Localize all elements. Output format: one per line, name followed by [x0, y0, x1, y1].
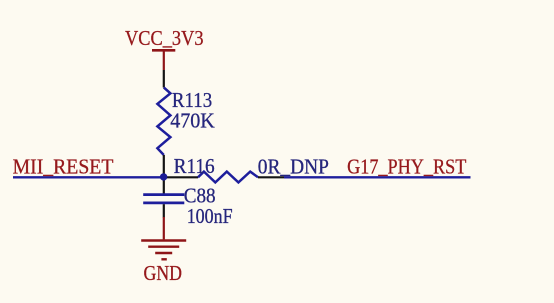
svg-text:G17_PHY_RST: G17_PHY_RST — [347, 154, 466, 178]
svg-text:470K: 470K — [170, 109, 215, 133]
svg-text:GND: GND — [144, 261, 183, 285]
svg-text:MII_RESET: MII_RESET — [13, 154, 114, 178]
svg-text:R116: R116 — [174, 154, 215, 178]
svg-text:100nF: 100nF — [187, 204, 233, 228]
svg-text:VCC_3V3: VCC_3V3 — [125, 26, 204, 50]
svg-text:0R_DNP: 0R_DNP — [258, 154, 329, 178]
